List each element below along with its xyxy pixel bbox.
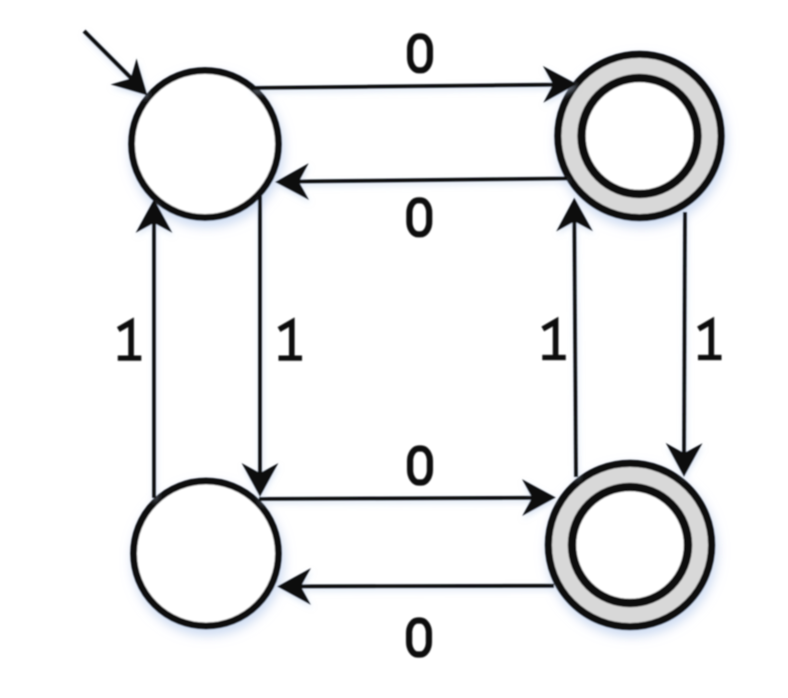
- label 1 (q1 to q3): [698, 322, 722, 358]
- state q0 start (top-left plain circle): [132, 71, 279, 218]
- transition q2 to q0, wire, label 1 (left up): [136, 199, 173, 498]
- arrowhead into q2 top: [242, 463, 279, 497]
- arrowhead into q0: [275, 163, 309, 200]
- arrowhead into q0 bottom: [136, 199, 173, 233]
- transition q0 to q2, wire, label 1 (left down): [242, 196, 279, 497]
- arrowhead into q1 bottom: [556, 197, 593, 231]
- state q2 plain (bottom-left circle): [134, 481, 279, 626]
- start arrowhead: [110, 58, 160, 108]
- transition q1 to q3, wire, label 1 (right down): [666, 212, 703, 477]
- label 1 (q3 to q1): [542, 322, 566, 358]
- transition q3 to q1, wire, label 1 (right up): [556, 197, 593, 477]
- state q1 accepting (top-right double circle): [558, 54, 721, 217]
- arrowhead into q3 top: [666, 443, 703, 477]
- transition q1 to q0, wire, label 0: [275, 163, 567, 200]
- label 0 (q2 to q3): [410, 449, 430, 483]
- state q3 accepting (bottom-right double circle): [548, 463, 711, 626]
- label 0 (q3 to q2): [409, 621, 429, 655]
- start arrow wire into q0: [84, 31, 161, 109]
- arrowhead into q1: [543, 66, 577, 103]
- label 1 (q0 to q2): [279, 322, 303, 358]
- label 0 (q1 to q0): [409, 200, 429, 234]
- transition q3 to q2, wire, label 0 (bottom return): [277, 568, 554, 605]
- transition q2 to q3, wire, label 0 (bottom): [259, 479, 556, 516]
- label 0 (q0 to q1): [410, 36, 430, 70]
- transition q0 to q1, wire, label 0: [251, 66, 577, 103]
- arrowhead into q3: [522, 479, 556, 516]
- label 1 (q2 to q0): [118, 322, 142, 358]
- arrowhead into q2: [277, 568, 311, 605]
